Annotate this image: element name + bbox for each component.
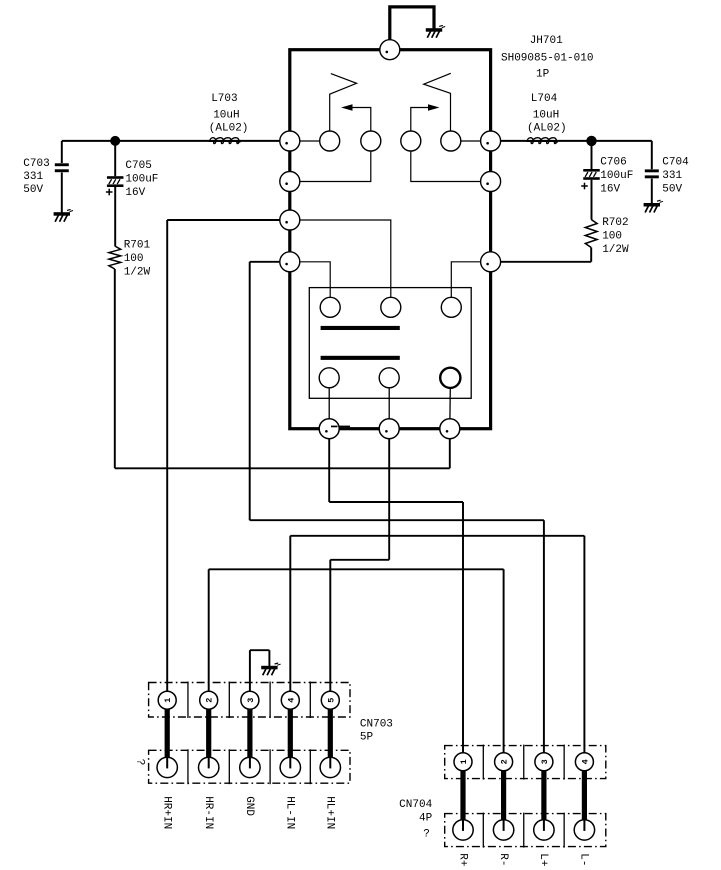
svg-text:CN704: CN704 — [399, 799, 432, 811]
svg-text:3: 3 — [540, 759, 550, 764]
svg-text:HL+IN: HL+IN — [324, 796, 336, 829]
svg-text:C704: C704 — [662, 157, 689, 169]
svg-text:L+: L+ — [537, 853, 549, 866]
svg-text:100uF: 100uF — [125, 174, 158, 186]
svg-text:HL-IN: HL-IN — [284, 796, 296, 829]
svg-text:HR+IN: HR+IN — [161, 796, 173, 829]
svg-text:10uH: 10uH — [533, 110, 559, 122]
svg-text:R-: R- — [497, 853, 509, 866]
svg-text:331: 331 — [23, 171, 43, 183]
svg-text:4P: 4P — [419, 813, 433, 825]
svg-text:C706: C706 — [600, 157, 626, 169]
svg-text:4: 4 — [580, 759, 590, 764]
svg-text:5P: 5P — [360, 732, 374, 744]
svg-text:2: 2 — [500, 759, 510, 764]
svg-text:5: 5 — [326, 698, 336, 703]
svg-text:?: ? — [423, 829, 430, 841]
svg-text:L-: L- — [578, 853, 590, 866]
svg-text:10uH: 10uH — [213, 109, 239, 121]
svg-text:(AL02): (AL02) — [527, 123, 567, 135]
svg-text:R701: R701 — [124, 240, 151, 252]
svg-text:JH701: JH701 — [530, 35, 563, 47]
svg-text:100: 100 — [602, 231, 622, 243]
svg-text:(AL02): (AL02) — [209, 122, 249, 134]
svg-text:2: 2 — [205, 698, 215, 703]
svg-text:HR-IN: HR-IN — [202, 796, 214, 829]
svg-text:1: 1 — [163, 698, 173, 703]
svg-text:SH09085-01-010: SH09085-01-010 — [501, 53, 593, 65]
svg-text:1P: 1P — [536, 69, 550, 81]
svg-text:331: 331 — [662, 170, 682, 182]
svg-text:3: 3 — [246, 698, 256, 703]
svg-text:CN703: CN703 — [360, 719, 393, 731]
svg-text:50V: 50V — [662, 184, 682, 196]
svg-text:C705: C705 — [125, 160, 151, 172]
svg-text:1/2W: 1/2W — [124, 267, 151, 279]
svg-text:1: 1 — [459, 759, 469, 764]
svg-text:1/2W: 1/2W — [602, 244, 629, 256]
svg-text:GND: GND — [243, 796, 255, 816]
svg-text:100uF: 100uF — [600, 170, 633, 182]
svg-text:L704: L704 — [531, 93, 558, 105]
svg-text:4: 4 — [286, 698, 296, 703]
svg-text:?: ? — [134, 759, 146, 766]
svg-text:16V: 16V — [125, 187, 145, 199]
svg-text:R702: R702 — [602, 217, 628, 229]
svg-text:16V: 16V — [600, 184, 620, 196]
svg-text:100: 100 — [124, 253, 144, 265]
svg-text:R+: R+ — [456, 853, 468, 866]
svg-text:C703: C703 — [23, 158, 49, 170]
svg-text:50V: 50V — [23, 184, 43, 196]
svg-text:L703: L703 — [211, 93, 237, 105]
